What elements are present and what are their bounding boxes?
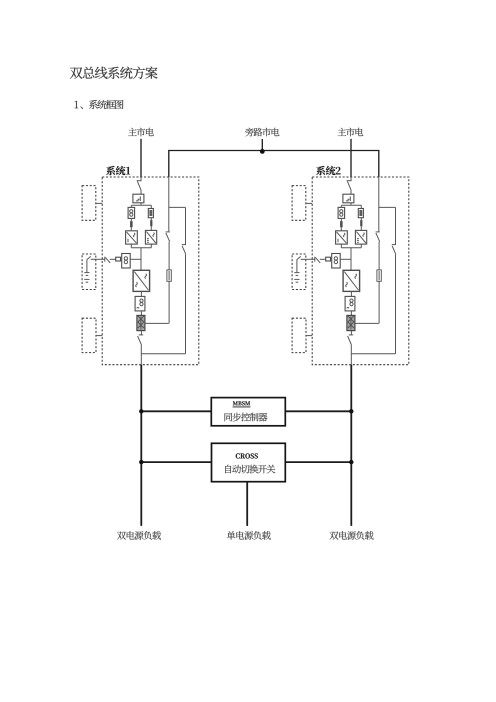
wire: contactor to output switch xyxy=(350,331,352,335)
label 自动切换开关 xyxy=(225,465,275,474)
battery converter box xyxy=(122,254,131,269)
wire: choke to left fuse xyxy=(340,218,342,221)
MBSM sync controller box xyxy=(211,398,285,426)
label 同步控制器 xyxy=(224,413,267,422)
inverter box xyxy=(133,270,150,291)
wire: static bypass drop xyxy=(378,177,380,231)
left fuse element xyxy=(130,221,133,227)
rectifier 1 box xyxy=(336,231,348,244)
label CROSS xyxy=(236,453,258,458)
maintenance switch tick xyxy=(392,244,396,246)
battery string symbol xyxy=(84,256,90,282)
wire: static switch to bypass fuse xyxy=(378,242,380,270)
input filter box xyxy=(133,194,144,203)
right branch filter box xyxy=(358,209,363,218)
system 1 enclosure (dashed cabinet outline) xyxy=(102,177,199,365)
wire: inverter to output transformer xyxy=(350,291,352,296)
wire: bottom cabinet to enclosure xyxy=(96,335,102,337)
wire: transformer to output contactor xyxy=(350,311,352,316)
battery cabinet top (system 2) xyxy=(292,186,306,221)
junction dot: CROSS left xyxy=(139,460,143,464)
wire: right filter to right fuse xyxy=(360,218,362,220)
wire: switch to input filter xyxy=(350,190,352,194)
wire: static bypass drop xyxy=(168,177,170,231)
battery breaker tick xyxy=(104,257,106,262)
maintenance switch blade xyxy=(392,246,396,255)
wire: battery to rectifier dc bus xyxy=(91,258,105,260)
bypass fuse box xyxy=(167,270,171,281)
wire: left branch drop xyxy=(340,205,342,207)
right branch filter box xyxy=(148,209,153,218)
left branch choke box xyxy=(128,207,135,218)
label 单电源负载 xyxy=(227,531,271,540)
wire: top cabinet to enclosure xyxy=(96,202,102,204)
wire: maintenance bypass join xyxy=(141,353,185,355)
battery fuse xyxy=(116,257,121,261)
output switch tick xyxy=(349,334,353,336)
wire: left branch drop xyxy=(130,205,132,207)
wire: top cabinet to enclosure xyxy=(306,202,312,204)
wire: CROSS right connector xyxy=(285,461,351,463)
split bar to dual rectifier branches xyxy=(131,204,151,206)
battery cabinet middle (system 1) xyxy=(82,254,96,290)
rectifier 2 box xyxy=(145,230,156,244)
wire: output switch to enclosure bottom xyxy=(350,345,352,365)
battery breaker tick xyxy=(314,257,316,262)
wire: right branch drop xyxy=(150,205,152,208)
wire: battery converter to dc bus xyxy=(340,258,351,260)
wire: filter to split xyxy=(140,203,142,206)
battery cabinet middle (system 2) xyxy=(292,254,306,290)
wire: rectifier outputs rejoin xyxy=(131,244,151,248)
wire: inverter to output transformer xyxy=(140,291,142,296)
bypass bus xyxy=(169,151,379,178)
wire: maintenance switch to output join xyxy=(395,255,397,354)
CROSS automatic transfer switch box xyxy=(212,443,286,481)
wire: rectifier outputs rejoin xyxy=(341,244,361,248)
battery cabinet bottom (system 2) xyxy=(292,318,306,352)
wire: static bypass join after contactor xyxy=(355,322,379,324)
left fuse element xyxy=(340,221,343,227)
junction dot: MBSM right xyxy=(349,409,353,413)
wire: right fuse to rectifier 2 xyxy=(360,226,362,230)
label 旁路市电 xyxy=(245,128,279,137)
system 2 enclosure (dashed cabinet outline) xyxy=(312,177,409,365)
output switch blade xyxy=(348,336,352,344)
wire: static bypass join after contactor xyxy=(145,322,169,324)
wire: bypass fuse to join xyxy=(168,281,170,323)
label 双电源负载 (right) xyxy=(330,531,374,540)
battery cabinet top (system 1) xyxy=(82,186,96,221)
split bar to dual rectifier branches xyxy=(341,204,361,206)
junction dot: MBSM left xyxy=(139,409,143,413)
wire: mains feed inside enclosure xyxy=(350,177,352,181)
label MBSM xyxy=(233,401,251,407)
label 主市电 (right) xyxy=(338,128,364,137)
wire: mains feed system 1 xyxy=(140,139,142,177)
junction dot: bypass bus tap xyxy=(260,149,265,154)
wire: mains feed system 2 xyxy=(350,139,352,177)
input switch tick xyxy=(347,180,352,182)
wire: filter to split xyxy=(350,203,352,206)
label 主市电 (left) xyxy=(128,128,154,137)
output contactor box (hatched) xyxy=(137,315,145,330)
wire: maintenance branch bar xyxy=(379,206,396,208)
wire: output switch to enclosure bottom xyxy=(140,345,142,365)
document title 双总线系统方案 xyxy=(70,67,158,79)
wire: MBSM left connector xyxy=(141,410,211,412)
wire: maintenance branch bar xyxy=(169,206,186,208)
output bus system 2 xyxy=(350,365,352,526)
wire: battery to rectifier dc bus xyxy=(301,258,315,260)
wire: CROSS output drop xyxy=(246,482,248,526)
leader: 旁路市电 to bus xyxy=(261,139,263,151)
wire: right filter to right fuse xyxy=(150,218,152,220)
wire: battery converter to dc bus xyxy=(130,258,141,260)
output switch blade xyxy=(138,336,142,344)
static bypass switch tick xyxy=(166,231,170,233)
battery fuse xyxy=(326,257,331,261)
static bypass switch blade xyxy=(166,233,170,242)
wire: left fuse to rectifier 1 xyxy=(340,227,342,231)
output switch tick xyxy=(139,334,143,336)
static bypass switch tick xyxy=(376,231,380,233)
battery breaker blade xyxy=(315,257,320,263)
maintenance switch blade xyxy=(182,246,186,255)
wire: left fuse to rectifier 1 xyxy=(130,227,132,231)
output transformer box xyxy=(345,296,355,311)
wire: mains feed inside enclosure xyxy=(140,177,142,181)
output bus system 1 xyxy=(140,365,142,526)
heading 1、系统框图 xyxy=(75,100,124,109)
wire: maintenance bypass drop xyxy=(395,207,397,244)
static bypass switch blade xyxy=(376,233,380,242)
label 双电源负载 (left) xyxy=(117,531,161,540)
right fuse element xyxy=(150,220,152,226)
wire: transformer to output contactor xyxy=(140,311,142,316)
battery breaker blade xyxy=(105,257,110,263)
input filter box xyxy=(343,194,354,203)
junction dot: CROSS right xyxy=(349,460,353,464)
wire: dc bus down to inverter xyxy=(350,248,352,270)
wire: maintenance switch to output join xyxy=(185,255,187,354)
battery cabinet bottom (system 1) xyxy=(82,318,96,352)
battery converter box xyxy=(332,254,341,269)
wire: maintenance bypass join xyxy=(351,353,395,355)
wire: blade to battery fuse xyxy=(320,258,326,260)
wire: switch to input filter xyxy=(140,190,142,194)
right fuse element xyxy=(360,220,362,226)
wire: static switch to bypass fuse xyxy=(168,242,170,270)
wire: right fuse to rectifier 2 xyxy=(150,226,152,230)
wire: choke to left fuse xyxy=(130,218,132,221)
battery string symbol xyxy=(294,256,300,282)
input switch blade xyxy=(137,181,141,190)
rectifier 2 box xyxy=(355,230,366,244)
wire: right branch drop xyxy=(360,205,362,208)
wire: dc bus down to inverter xyxy=(140,248,142,270)
rectifier 1 box xyxy=(126,231,138,244)
wire: bottom cabinet to enclosure xyxy=(306,335,312,337)
wire: maintenance bypass drop xyxy=(185,207,187,244)
system 1 label 系统1 xyxy=(106,166,130,175)
inverter box xyxy=(343,270,360,291)
wire: contactor to output switch xyxy=(140,331,142,335)
system 2 label 系统2 xyxy=(316,166,340,175)
bypass fuse box xyxy=(377,270,381,281)
output contactor box (hatched) xyxy=(347,315,355,330)
wire: blade to battery fuse xyxy=(110,258,116,260)
left branch choke box xyxy=(338,207,345,218)
input switch blade xyxy=(347,181,351,190)
maintenance switch tick xyxy=(182,244,186,246)
wire: CROSS left connector xyxy=(141,461,211,463)
wire: bypass fuse to join xyxy=(378,281,380,323)
input switch tick xyxy=(137,180,142,182)
wire: MBSM right connector xyxy=(285,410,351,412)
output transformer box xyxy=(135,296,145,311)
